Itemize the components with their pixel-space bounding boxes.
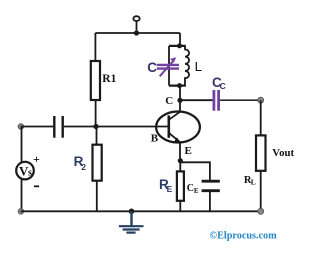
wire E to CE [180,162,210,181]
resistor RL [244,100,295,211]
capacitor CC [180,75,261,111]
ground [119,209,144,233]
svg-text:R1: R1 [102,73,116,85]
junction dot supply [134,30,139,35]
variable capacitor C [147,46,179,86]
transistor Q1 [151,112,200,158]
inductor L [185,46,202,86]
wire supply to tank [179,33,181,46]
wire top rail [95,32,180,34]
junction dot tank top [177,43,182,48]
svg-text:E: E [194,187,199,195]
supply terminal [133,16,139,33]
node input gray [18,124,23,129]
svg-text:C: C [147,60,157,75]
resistor R1 [91,33,117,127]
svg-text:+: + [33,152,40,166]
node E junction [178,158,183,163]
svg-text:E: E [167,184,173,194]
tank bottom bar [169,84,186,86]
svg-text:C: C [165,95,173,107]
svg-text:C: C [220,81,226,91]
wire emitter [179,142,181,161]
node output top gray [258,97,264,103]
wire bottom rail [21,210,261,212]
svg-text:L: L [195,59,202,74]
tank top bar [169,45,186,47]
svg-text:E: E [185,145,192,157]
node C [177,98,182,103]
resistor R2 [74,127,102,212]
resistor RE [159,161,184,212]
wire collector [179,86,181,112]
svg-text:2: 2 [81,162,86,172]
capacitor Cin [21,116,96,138]
svg-text:©Elprocus.com: ©Elprocus.com [210,230,278,241]
capacitor CE [187,181,220,211]
svg-text:Vout: Vout [272,147,294,159]
wire base [96,126,169,128]
junction dot tank bottom [177,83,182,88]
source Vs [16,127,40,212]
svg-text:L: L [251,178,256,187]
node output bottom gray [258,208,264,214]
node bottom-left gray [18,209,23,214]
svg-text:B: B [151,133,159,145]
node B junction [93,124,98,129]
svg-text:s: s [28,167,32,178]
